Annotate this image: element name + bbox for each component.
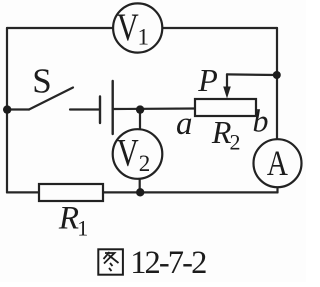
voltmeter V1 <box>113 3 162 52</box>
wire top <box>7 27 277 29</box>
svg-text:A: A <box>267 143 288 183</box>
slider P arrowhead <box>223 87 231 99</box>
wire middle left (node to switch pivot) <box>7 108 29 110</box>
svg-text:P: P <box>197 62 218 98</box>
svg-text:a: a <box>176 106 193 142</box>
wire V2 bottom to bottom wire <box>139 178 141 193</box>
svg-text:V: V <box>117 132 139 175</box>
ammeter A <box>254 139 302 187</box>
wire right lower <box>276 187 278 192</box>
battery long plate <box>111 81 113 134</box>
svg-text:2: 2 <box>230 129 241 154</box>
svg-text:b: b <box>253 102 269 138</box>
label R1 <box>58 201 88 241</box>
caption hanzi tu (figure) glyph <box>98 249 123 274</box>
battery short plate <box>99 97 101 124</box>
svg-text:1: 1 <box>137 25 149 50</box>
svg-text:2: 2 <box>139 151 151 176</box>
label R2 <box>211 114 241 154</box>
wire left <box>6 28 8 192</box>
node battery-V2 junction <box>136 105 144 113</box>
potentiometer R2 body <box>195 99 256 116</box>
svg-text:1: 1 <box>77 215 88 240</box>
svg-text:R: R <box>58 201 79 237</box>
wire bottom <box>7 191 278 193</box>
node left junction <box>3 105 11 113</box>
svg-text:12-7-2: 12-7-2 <box>130 245 206 281</box>
wire right upper <box>276 28 278 139</box>
switch S blade <box>29 88 73 110</box>
wire slider P horizontal <box>227 73 277 76</box>
svg-text:V: V <box>117 6 139 49</box>
wire node to V2 top <box>139 110 141 132</box>
wire slider P vertical <box>226 74 228 87</box>
wire battery to R2 left terminal a <box>114 107 195 110</box>
svg-text:S: S <box>32 61 51 100</box>
node right junction <box>273 71 281 79</box>
switch S contact wire <box>70 108 99 110</box>
node V2 bottom junction <box>136 188 144 196</box>
voltmeter V2 <box>113 129 163 179</box>
resistor R1 body <box>39 184 103 201</box>
